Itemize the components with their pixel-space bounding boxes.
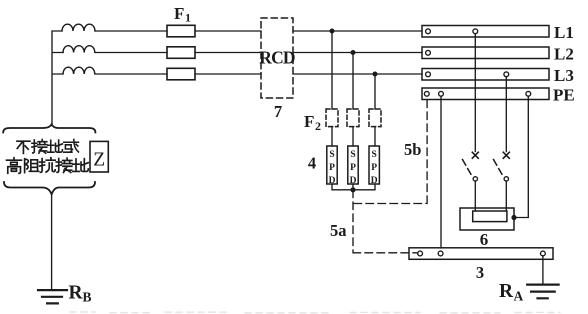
node: junction on L3 feeding SPD 3	[373, 72, 378, 77]
svg-text:L2: L2	[554, 45, 574, 64]
transformer winding, phase L1	[62, 24, 95, 31]
svg-text:L1: L1	[554, 23, 574, 42]
svg-text:RCD: RCD	[259, 48, 295, 68]
disconnection point (cross) switch 2	[503, 152, 509, 158]
svg-text:S: S	[372, 150, 377, 160]
svg-text:P: P	[329, 163, 335, 173]
busbar L3	[422, 69, 549, 81]
wire: neutral point to earth electrode RB	[51, 196, 53, 291]
wire: switch 1 to equipment 6	[474, 181, 476, 211]
transformer winding, phase L2	[63, 46, 95, 53]
fuse F2, SPD 1 (dashed)	[326, 109, 338, 127]
fuse F2, SPD 3 (dashed)	[369, 109, 381, 127]
wire: SPD 3 drop from L3	[374, 74, 376, 109]
ground (earth electrode RA)	[527, 285, 558, 299]
RCD residual-current device U7 (dashed box)	[261, 18, 293, 98]
svg-text:B: B	[83, 290, 92, 305]
switch contact 2 (circle)	[504, 177, 508, 181]
disconnection point (cross) switch 1	[472, 152, 478, 158]
equipment 6 (outer enclosure)	[460, 208, 514, 230]
wire: L3 winding to fuse F1	[96, 73, 167, 75]
terminal on busbar L2 (feed)	[426, 50, 431, 55]
node: equipment earth tap	[511, 215, 516, 220]
label: Chinese text line 2 (gao zu kang jie di - high impedance earthed)	[7, 158, 89, 174]
switch contact 1 (circle)	[473, 177, 477, 181]
terminal on bar 3 (from 5a)	[418, 251, 423, 256]
wire: switch 2 to equipment 6	[505, 181, 507, 211]
svg-text:P: P	[350, 163, 356, 173]
svg-text:5b: 5b	[404, 140, 421, 159]
wire: fuse to RCD, phase L3	[195, 73, 261, 75]
wire: fuse to RCD, phase L1	[195, 30, 261, 32]
svg-text:2: 2	[315, 119, 321, 133]
terminal on busbar PE (to equipment earth)	[526, 91, 531, 96]
wire: SPD common earth link	[332, 184, 375, 190]
wire: busbar L1 to disconnection point 1	[474, 34, 476, 152]
terminal on bar 3 (to earth electrode RA)	[541, 251, 546, 256]
svg-text:A: A	[514, 289, 524, 304]
wire 5a: SPD earth to earthing bar (dashed)	[353, 190, 418, 253]
annotation underbrace (bottom of impedance section)	[4, 182, 95, 194]
annotation overbrace (top of impedance section)	[3, 124, 95, 132]
wire: SPD 1 drop from L1	[331, 31, 333, 109]
svg-text:S: S	[350, 150, 355, 160]
wire: RCD to busbar L3	[293, 73, 422, 75]
transformer winding, phase L3	[63, 67, 95, 74]
wire: L1 winding to fuse F1	[95, 30, 167, 32]
fuse F1, phase L1	[167, 25, 195, 37]
wire: bar 3 to earth electrode RA	[542, 256, 544, 285]
busbar L2	[422, 47, 549, 59]
wire: busbar L3 to disconnection point 2	[505, 77, 507, 152]
wire: RCD to busbar L1	[293, 30, 422, 32]
label: Chinese text line 1 (bu jie di huo - ungrounded or)	[17, 139, 78, 153]
equipment 6 internal terminal bar	[473, 211, 507, 222]
svg-text:L3: L3	[554, 66, 574, 85]
svg-text:S: S	[329, 150, 334, 160]
wire: L2 winding to fuse F1	[96, 52, 167, 54]
svg-text:3: 3	[476, 263, 484, 282]
switch blade 2 (dashed diagonal)	[494, 160, 504, 177]
svg-text:4: 4	[308, 154, 316, 173]
wire: F2 to SPD 3	[374, 127, 376, 146]
wire: F2 to SPD 1	[331, 127, 333, 146]
svg-text:1: 1	[185, 11, 191, 25]
svg-text:PE: PE	[553, 86, 575, 105]
earthing busbar 3	[409, 248, 553, 259]
svg-text:Z: Z	[93, 150, 105, 171]
impedance Z box	[90, 141, 108, 172]
fuse F1, phase L3	[167, 68, 195, 80]
svg-text:P: P	[371, 163, 377, 173]
terminal on busbar L1 (to equipment)	[473, 29, 478, 34]
terminal on busbar L1 (feed)	[426, 29, 431, 34]
fuse F1, phase L2	[167, 47, 195, 59]
caption remnant (cropped text at bottom edge)	[70, 311, 560, 314]
surge protective device SPD 2	[348, 146, 358, 186]
svg-text:6: 6	[480, 230, 489, 249]
wire: equipment earth to PE terminal	[514, 96, 528, 217]
fuse F2, SPD 2 (dashed)	[347, 109, 359, 127]
terminal on busbar L3 (to equipment)	[504, 72, 509, 77]
wire: fuse to RCD, phase L2	[195, 52, 261, 54]
busbar PE	[422, 88, 549, 100]
terminal on busbar PE (to earthing bar 3)	[439, 91, 444, 96]
node: SPD common earth junction	[350, 187, 355, 192]
svg-text:7: 7	[274, 102, 282, 121]
terminal on busbar PE (to SPD earth, 5b)	[424, 91, 429, 96]
ground (earth electrode RB)	[38, 290, 67, 303]
node: junction on L2 feeding SPD 2	[351, 50, 356, 55]
wire: F2 to SPD 2	[352, 127, 354, 146]
wire: SPD 2 drop from L2	[352, 53, 354, 110]
busbar L1	[422, 26, 549, 38]
terminal on busbar L3 (feed)	[426, 72, 431, 77]
wire: PE bar to earthing bar 3	[440, 96, 442, 248]
surge protective device SPD 1	[327, 146, 337, 186]
terminal on bar 3 (from PE)	[438, 251, 443, 256]
wire: RCD to busbar L2	[293, 52, 422, 54]
wire 5b: SPD earth to PE bar (dashed)	[354, 100, 427, 204]
switch blade 1 (dashed diagonal)	[463, 160, 473, 177]
node: junction on L1 feeding SPD 1	[330, 29, 335, 34]
wire: neutral-point bus joining the three windings	[52, 31, 63, 126]
svg-text:D: D	[371, 176, 378, 186]
surge protective device SPD 3	[369, 146, 379, 186]
svg-text:R: R	[499, 281, 514, 302]
svg-text:5a: 5a	[330, 221, 347, 240]
svg-text:F: F	[174, 4, 184, 23]
svg-text:F: F	[304, 112, 314, 131]
svg-text:R: R	[69, 283, 84, 304]
